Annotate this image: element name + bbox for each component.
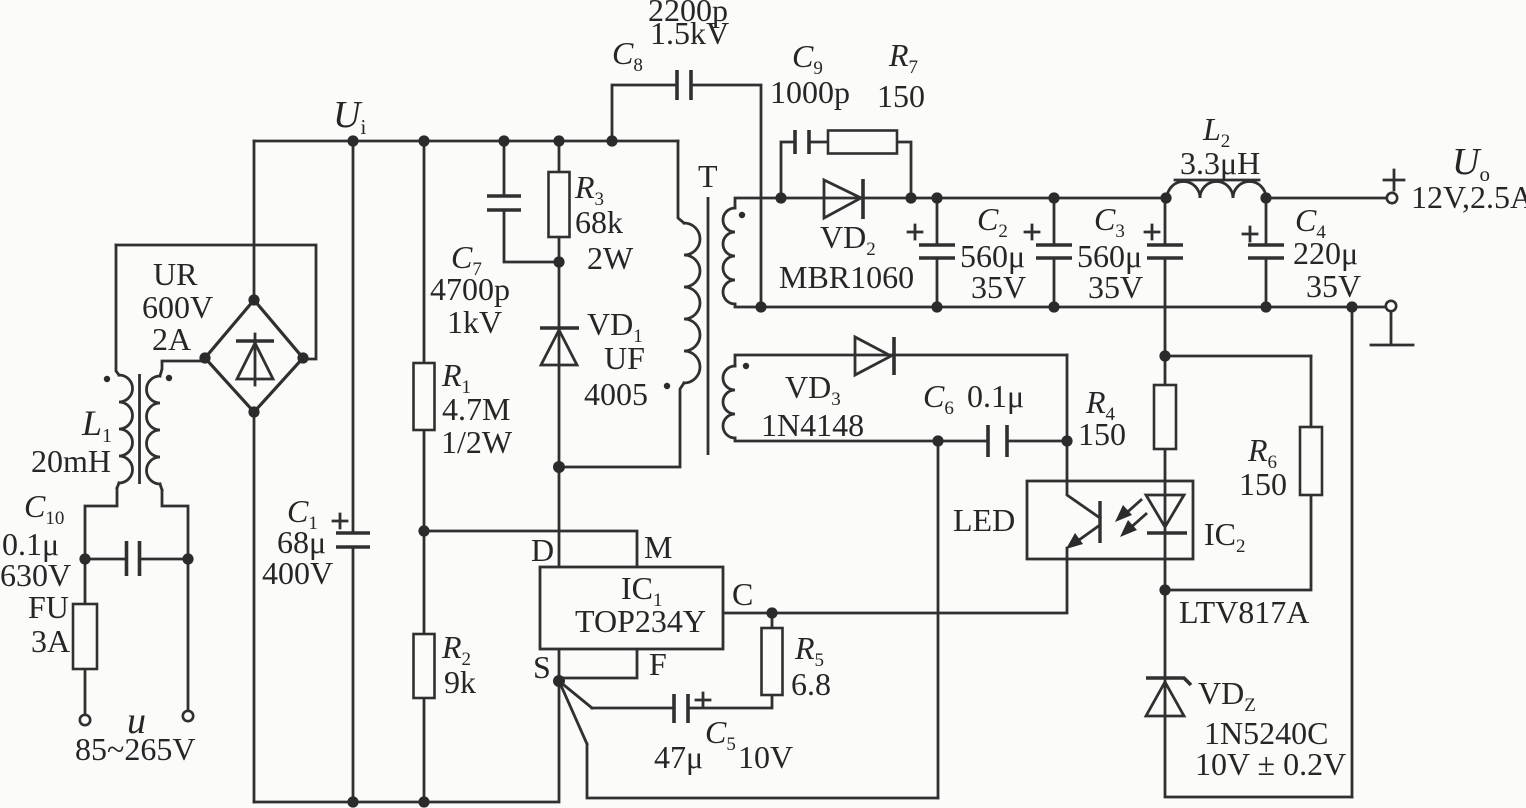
svg-text:4700p: 4700p (430, 271, 510, 307)
capacitor C3 plates (1036, 245, 1072, 258)
diode VD3 (855, 337, 891, 375)
node S pin junction (553, 675, 565, 687)
L1 phase dot left (104, 376, 110, 382)
svg-text:47μ: 47μ (654, 739, 703, 775)
output terminal circle (1387, 193, 1397, 203)
svg-text:S: S (533, 649, 551, 685)
svg-text:10V ± 0.2V: 10V ± 0.2V (1195, 746, 1346, 782)
wire C9 R7 snubber branch (781, 142, 911, 198)
capacitor C1 plates (336, 533, 370, 547)
wire R1 R2 column (423, 141, 426, 802)
C3 plus sign (1025, 225, 1039, 239)
wire feedback winding bottom lead (735, 438, 938, 441)
node output rail dots (775, 192, 786, 203)
across-L2 cap plus sign (1145, 225, 1159, 239)
svg-text:0.1μ: 0.1μ (967, 378, 1024, 414)
svg-text:TOP234Y: TOP234Y (575, 603, 706, 639)
svg-text:35V: 35V (1306, 268, 1361, 304)
node R3 VD1 junction (553, 256, 564, 267)
svg-text:600V: 600V (142, 289, 213, 325)
opto LED (1146, 495, 1184, 527)
wire S to source rail (559, 681, 938, 798)
wire R5 leads (688, 613, 772, 708)
svg-text:1kV: 1kV (447, 304, 502, 340)
wire R4 bottom to LED anode (1164, 449, 1167, 590)
node C pin R5 junction (766, 607, 777, 618)
node Ui rail (254, 140, 678, 143)
IC1 TOP234Y box (540, 567, 723, 649)
svg-text:UR: UR (153, 256, 198, 292)
svg-text:1000p: 1000p (770, 74, 850, 110)
svg-text:UF: UF (604, 340, 645, 376)
svg-text:FU: FU (28, 589, 69, 625)
diode VD1 (540, 326, 579, 330)
wire drain node to primary bottom (559, 383, 684, 467)
wire VD3 cathode to node (1066, 355, 1069, 441)
capacitor C7 plates (487, 196, 521, 210)
bridge internal diode (254, 334, 257, 385)
svg-text:6.8: 6.8 (791, 666, 831, 702)
svg-text:150: 150 (877, 78, 925, 114)
T bias phase dot (743, 363, 749, 369)
wire M pin (424, 531, 637, 567)
svg-text:9k: 9k (444, 664, 476, 700)
wire feedback winding top lead (735, 355, 1067, 366)
wire X-cap leads (85, 558, 188, 561)
inductor L1 core (138, 374, 141, 484)
svg-text:M: M (644, 529, 672, 565)
wire rail to bridge top (253, 141, 256, 300)
wire S pin lead (558, 649, 561, 681)
wire VD1 leads (558, 262, 561, 467)
svg-text:220μ: 220μ (1293, 235, 1358, 271)
resistor R3 body (549, 172, 570, 237)
wire node A to opto collector (1066, 441, 1069, 481)
wire rail to transformer primary top (678, 141, 684, 223)
capacitor C5 plates (674, 694, 688, 723)
C5 plus sign (696, 693, 710, 707)
svg-text:3A: 3A (31, 623, 70, 659)
wire ground terminal drop (1371, 312, 1413, 345)
transformer T bias winding (723, 366, 735, 438)
wire C1 branch (352, 141, 355, 802)
svg-text:T: T (698, 158, 718, 194)
node R1 R2 M junction (418, 525, 429, 536)
wire C6 leads (938, 440, 1067, 443)
ground terminal circle (1386, 301, 1396, 311)
wire secondary top lead (735, 198, 1167, 208)
wire L1 left lead (116, 245, 119, 375)
capacitor C4 plates (1248, 245, 1284, 258)
wire right input terminal lead (187, 559, 190, 711)
node drain junction (553, 461, 565, 473)
svg-text:D: D (531, 532, 554, 568)
svg-text:MBR1060: MBR1060 (779, 259, 914, 295)
wire C5 to S pin (559, 681, 674, 708)
wire R6 leads (1165, 356, 1311, 590)
wire primary ground rail (254, 681, 559, 802)
svg-text:150: 150 (1239, 466, 1287, 502)
wire D pin (558, 467, 561, 567)
C4 plus sign (1243, 227, 1257, 241)
resistor R7 body (828, 131, 897, 154)
capacitor C2 plates (919, 245, 955, 258)
svg-text:35V: 35V (971, 269, 1026, 305)
wire L1 left bottom lead (85, 483, 119, 559)
resistor R2 body (414, 634, 435, 698)
inductor L1 left winding (119, 375, 133, 483)
svg-text:4.7M: 4.7M (442, 391, 510, 427)
node Ui junction dots (347, 135, 358, 146)
resistor R6 body (1300, 427, 1322, 495)
svg-text:1N4148: 1N4148 (761, 407, 864, 443)
svg-text:LTV817A: LTV817A (1179, 594, 1309, 630)
L1 phase dot right (166, 375, 172, 381)
wire L1 right bottom lead (160, 484, 188, 559)
svg-text:35V: 35V (1088, 269, 1143, 305)
opto phototransistor (1098, 501, 1101, 543)
inductor L2 (1167, 182, 1266, 199)
svg-text:68k: 68k (575, 204, 623, 240)
wire C4 leads (1265, 198, 1268, 307)
opto light arrows (1123, 500, 1141, 516)
svg-text:10V: 10V (738, 739, 793, 775)
wire VDz anode return (1165, 590, 1352, 797)
svg-text:1.5kV: 1.5kV (650, 15, 729, 51)
capacitor across L2 plates (1147, 245, 1183, 258)
transformer T core (707, 197, 710, 455)
svg-text:F: F (649, 646, 667, 682)
wire output ground down lead (1351, 307, 1354, 797)
svg-text:2W: 2W (587, 240, 634, 276)
capacitor C6 plates (988, 425, 1007, 457)
node bridge vertices (248, 294, 259, 305)
wire R4 top net (1165, 356, 1311, 385)
fuse FU body (73, 604, 97, 669)
wire UR box loop (116, 245, 316, 359)
wire C2 leads (936, 198, 939, 307)
svg-text:LED: LED (953, 502, 1015, 538)
node primary ground dots (347, 796, 358, 807)
wire bridge left vertex to L1 (160, 361, 205, 376)
node LED cathode junction (1159, 584, 1170, 595)
node output ground dots (755, 301, 766, 312)
svg-text:400V: 400V (262, 555, 333, 591)
resistor R5 body (762, 628, 783, 695)
wire bias return to S rail (937, 441, 940, 798)
wire fuse leads (84, 559, 87, 715)
svg-text:3.3μH: 3.3μH (1180, 145, 1260, 181)
wire F pin lead (559, 649, 637, 678)
wire secondary bottom to output ground rail (735, 304, 1385, 307)
diode VD2 (824, 180, 861, 218)
node X-cap junctions (79, 553, 90, 564)
capacitor C8 plates (677, 70, 691, 100)
output terminal plus (1384, 170, 1404, 190)
wire R3 leads (558, 141, 561, 262)
rectifier bridge UR diamond (205, 300, 303, 412)
T secondary phase dot (739, 212, 745, 218)
node R4 top junction (1159, 350, 1170, 361)
wire C7 branch (504, 141, 559, 262)
C2 plus sign (908, 225, 922, 239)
wire bridge bottom to ground rail (253, 412, 256, 802)
inductor L1 right winding (147, 376, 161, 484)
input terminal left (80, 715, 90, 725)
wire C-E cap leads (1164, 198, 1167, 356)
svg-text:C: C (732, 576, 753, 612)
svg-text:4005: 4005 (584, 376, 648, 412)
zener VDz (1146, 678, 1191, 685)
node bias winding dots (932, 435, 943, 446)
C1 plus sign (333, 514, 347, 528)
svg-text:1/2W: 1/2W (441, 424, 513, 460)
svg-text:12V,2.5A: 12V,2.5A (1411, 179, 1526, 215)
T primary phase dot (664, 383, 670, 389)
optocoupler IC2 box (1027, 481, 1193, 559)
svg-text:85~265V: 85~265V (75, 731, 195, 767)
wire output rail to terminal (1266, 197, 1387, 200)
transformer T primary winding (684, 223, 700, 383)
wire C8 branch (612, 85, 761, 307)
resistor R1 body (414, 363, 435, 430)
svg-text:2A: 2A (152, 321, 191, 357)
input terminal right (183, 711, 193, 721)
wire opto emitter to C pin (723, 548, 1067, 613)
svg-text:150: 150 (1078, 416, 1126, 452)
L2 label underline (1175, 179, 1259, 182)
svg-text:630V: 630V (0, 557, 71, 593)
capacitor C9 plates (795, 130, 809, 154)
transformer T secondary winding (723, 208, 735, 304)
wire C3 leads (1053, 198, 1056, 307)
resistor R4 body (1154, 385, 1176, 449)
svg-text:20mH: 20mH (31, 443, 111, 479)
capacitor C10 plates (127, 541, 140, 576)
